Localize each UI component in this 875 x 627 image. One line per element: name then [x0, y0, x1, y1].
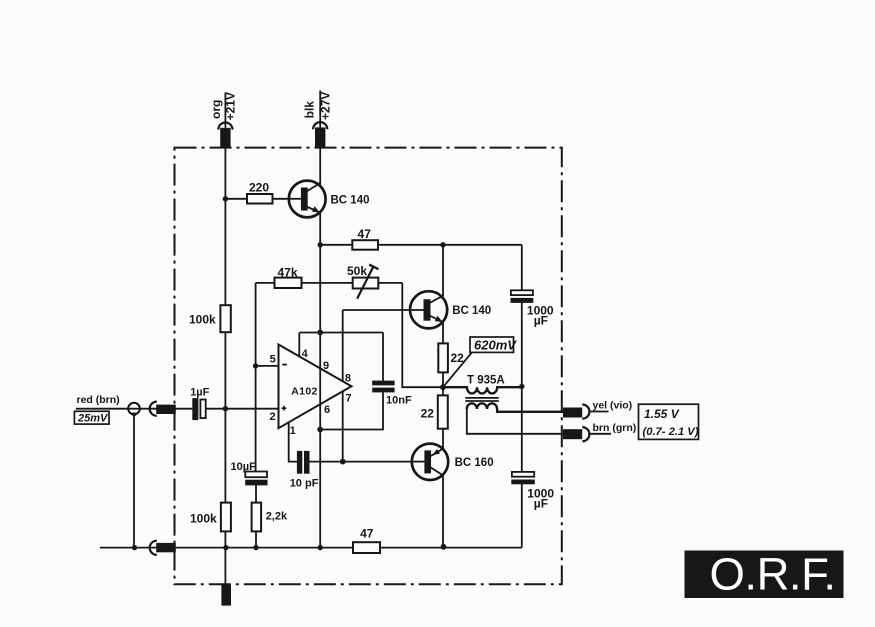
resistor R6 100k (lower)	[221, 503, 231, 532]
node dot 47 row / blk rail	[318, 242, 323, 247]
wire source return drop	[133, 413, 135, 548]
svg-text:O.R.F.: O.R.F.	[710, 549, 836, 600]
wire 10nF top drop	[382, 333, 384, 381]
capacitor C6 1000uF (lower) plate hollow	[512, 472, 534, 477]
wire blk feed above connector	[319, 91, 321, 128]
svg-text:(0.7- 2.1 V): (0.7- 2.1 V)	[643, 426, 699, 438]
transistor Q3 BC160	[412, 444, 448, 480]
svg-text:47: 47	[358, 227, 372, 241]
node dot pin7 / base row	[340, 459, 346, 465]
svg-text:5: 5	[270, 354, 276, 366]
svg-text:A102: A102	[291, 385, 317, 397]
wire pin1 drop to 10pF	[289, 423, 297, 462]
capacitor C2 10uF plate solid	[245, 480, 267, 486]
node dot Q3 collector / bottom rail	[441, 544, 447, 550]
node dot input / org rail	[223, 406, 228, 411]
boxed label 620mV	[470, 337, 517, 353]
wire node row y332	[299, 332, 383, 334]
svg-text:org: org	[209, 100, 223, 119]
wire Q2 emitter drop	[442, 321, 444, 343]
wire 1000uF#1 to node	[521, 302, 523, 387]
resistor R3 47k	[275, 278, 302, 288]
input source circle	[127, 403, 141, 418]
wire Q3 base row	[309, 461, 412, 463]
svg-text:µF: µF	[534, 497, 548, 511]
node dot org rail / bottom rail	[223, 545, 228, 550]
svg-text:2,2k: 2,2k	[266, 511, 288, 523]
boxed label 1.55 V / (0.7-2.1 V)	[639, 404, 699, 439]
svg-text:BC 140: BC 140	[452, 305, 491, 317]
svg-text:+21V: +21V	[224, 92, 238, 120]
svg-text:+27V: +27V	[318, 92, 332, 120]
node dot 2,2k / bottom rail	[253, 545, 258, 550]
transistor Q1 BC140 (top)	[289, 181, 326, 218]
svg-text:1µF: 1µF	[190, 386, 209, 398]
connector output brn/grn (tab and arc)	[563, 427, 589, 441]
svg-text:10 pF: 10 pF	[290, 478, 319, 490]
svg-text:brn (grn): brn (grn)	[593, 422, 637, 434]
wire input line right of C1	[206, 408, 279, 410]
wire brn stub outside	[590, 433, 611, 435]
wire secondary to brn output	[467, 409, 564, 434]
wire left column upper	[255, 283, 257, 472]
connector org +21V (tab and arc)	[218, 123, 232, 148]
wire bottom common rail	[100, 547, 522, 549]
connector input red/brn (tab and arc)	[150, 402, 176, 416]
svg-text:2: 2	[269, 411, 275, 423]
svg-text:8: 8	[345, 373, 351, 385]
wire input line left of C1	[76, 408, 193, 410]
resistor R10 47 (bottom)	[353, 542, 380, 553]
svg-text:6: 6	[324, 404, 330, 416]
O.R.F. logo	[685, 549, 844, 600]
potentiometer R4 50k wiper arrow	[357, 266, 373, 298]
node dot rail / 10nF return	[317, 427, 323, 433]
resistor R2 47 (top)	[352, 240, 378, 250]
svg-text:yel (vio): yel (vio)	[593, 400, 633, 412]
callout pointer 620mV	[443, 352, 472, 387]
svg-text:220: 220	[249, 181, 269, 195]
svg-text:4: 4	[302, 348, 309, 360]
wire secondary to yel output	[497, 411, 564, 413]
wire node to 1000uF#2	[521, 387, 523, 472]
op-amp U1 triangle body	[279, 345, 352, 429]
svg-text:1.55 V: 1.55 V	[644, 407, 680, 421]
wire left column lower	[255, 485, 257, 548]
transistor Q2 BC140 (middle)	[410, 291, 447, 328]
resistor R8 22 (upper)	[438, 343, 448, 372]
svg-text:red (brn): red (brn)	[77, 394, 120, 406]
svg-text:BC 160: BC 160	[455, 457, 494, 469]
resistor R7 2,2k	[252, 503, 262, 532]
svg-text:9: 9	[323, 360, 329, 372]
capacitor C1 1uF plate hollow	[200, 400, 205, 419]
wire base row to R220	[225, 198, 289, 200]
capacitor C4 10nF plates	[372, 381, 394, 386]
capacitor C2 10uF plate hollow	[245, 472, 267, 478]
transformer T1 secondary winding	[467, 403, 564, 411]
wire blk +27V rail (vertical)	[319, 127, 321, 547]
svg-text:1: 1	[290, 425, 296, 437]
node dot source drop / bottom rail	[132, 545, 137, 550]
svg-text:BC 140: BC 140	[331, 194, 370, 206]
node dot blk rail / bottom rail	[318, 545, 323, 550]
wire 22#1 to node	[442, 372, 444, 387]
ground tab at bottom	[221, 585, 231, 606]
wire 47-ohm row	[320, 244, 522, 246]
svg-text:µF: µF	[534, 314, 548, 328]
wire org feed above connector	[224, 93, 226, 128]
resistor R5 100k (upper)	[220, 305, 230, 332]
svg-text:620mV: 620mV	[474, 338, 517, 353]
wire 22#2 to Q3 emitter	[442, 429, 444, 449]
svg-text:7: 7	[345, 393, 351, 405]
transformer T1 core lines	[465, 397, 499, 399]
wire yel stub outside	[590, 411, 609, 413]
boxed label 25mV	[74, 411, 109, 424]
svg-text:100k: 100k	[189, 313, 216, 327]
svg-text:47k: 47k	[277, 265, 297, 279]
wire pin8 riser	[342, 310, 344, 381]
potentiometer R4 50k	[353, 278, 379, 289]
wire pin4 stub	[298, 333, 300, 357]
wire Q2 base row	[343, 309, 412, 311]
wire 47k/50k row	[256, 282, 403, 284]
op-amp U1 non-inverting input plus sign	[282, 407, 287, 409]
capacitor C5 1000uF (upper) plate hollow	[511, 290, 533, 295]
node dot 620mV point	[440, 384, 446, 390]
svg-text:22: 22	[451, 351, 465, 365]
wire Q3 collector drop	[442, 475, 444, 547]
wire pin7 drop	[342, 392, 344, 462]
svg-text:50k: 50k	[347, 264, 367, 278]
wire down to C 1000uF #1	[521, 245, 523, 291]
capacitor C6 1000uF (lower) plate solid	[511, 480, 535, 485]
op-amp U1 inverting input minus sign	[282, 364, 287, 366]
wire 1000uF#2 to bottom rail	[521, 484, 523, 548]
wire Q2 collector riser	[442, 245, 444, 297]
node dot 47 row / collector riser	[440, 242, 445, 247]
resistor R1 220	[247, 194, 273, 204]
connector blk +27V (tab and arc)	[313, 122, 327, 148]
wire 50k wiper drop	[402, 283, 443, 387]
dashed enclosure border	[175, 148, 562, 585]
node dot pin5 / 47k column	[253, 363, 258, 368]
svg-text:T 935A: T 935A	[467, 374, 505, 386]
svg-text:25mV: 25mV	[77, 413, 109, 425]
svg-text:22: 22	[421, 407, 435, 421]
svg-text:10nF: 10nF	[386, 395, 412, 407]
svg-text:10µF: 10µF	[231, 461, 257, 473]
connector input low side (tab and arc)	[150, 541, 176, 555]
node dot primary / 1000uF column	[519, 384, 524, 389]
svg-text:blk: blk	[303, 101, 317, 119]
wire org +21V rail (vertical)	[224, 128, 226, 586]
wire 10nF bottom return	[320, 392, 383, 429]
node dot rail / y332 row	[317, 330, 323, 336]
wire node to 22#2	[442, 387, 444, 395]
capacitor C5 1000uF (upper) plate solid	[511, 298, 534, 303]
transformer T1 T935A primary winding	[443, 387, 522, 393]
resistor R9 22 (lower)	[438, 395, 448, 428]
connector output yel/vio (tab and arc)	[563, 405, 589, 419]
node dot base row / org rail	[223, 196, 228, 201]
wire pin5 stub	[256, 365, 279, 367]
capacitor C1 1uF plate solid	[192, 398, 198, 420]
svg-text:100k: 100k	[190, 511, 217, 525]
svg-text:47: 47	[360, 526, 374, 540]
capacitor C3 10pF plates	[297, 451, 302, 474]
